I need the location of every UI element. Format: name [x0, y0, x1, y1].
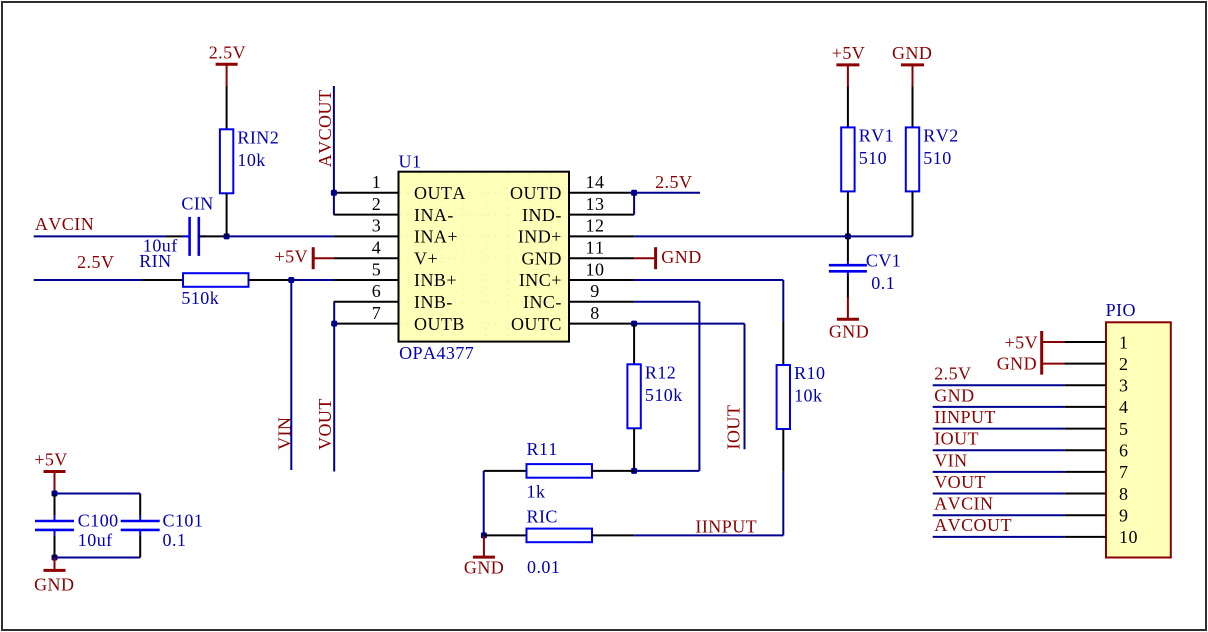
svg-text:+5V: +5V	[34, 450, 68, 470]
svg-text:6: 6	[1119, 441, 1128, 461]
svg-text:8: 8	[590, 303, 599, 323]
svg-text:R11: R11	[527, 439, 558, 459]
svg-text:R12: R12	[645, 363, 676, 383]
svg-text:IND-: IND-	[522, 205, 562, 225]
svg-text:GND: GND	[997, 354, 1037, 374]
svg-text:1k: 1k	[527, 481, 546, 501]
svg-text:VIN: VIN	[934, 450, 967, 470]
svg-text:GND: GND	[892, 43, 932, 63]
svg-text:2.5V: 2.5V	[934, 364, 971, 384]
svg-text:IINPUT: IINPUT	[695, 517, 757, 537]
svg-text:10uf: 10uf	[78, 530, 113, 550]
svg-text:IND+: IND+	[518, 227, 562, 247]
svg-text:RIN: RIN	[139, 251, 171, 271]
svg-text:IOUT: IOUT	[724, 405, 744, 450]
svg-text:0.1: 0.1	[163, 530, 187, 550]
svg-text:13: 13	[586, 194, 605, 214]
svg-text:0.1: 0.1	[871, 273, 895, 293]
svg-text:2.5V: 2.5V	[209, 42, 246, 62]
svg-text:GND: GND	[934, 385, 974, 405]
svg-text:C101: C101	[163, 510, 204, 530]
svg-text:OUTB: OUTB	[414, 314, 465, 334]
svg-text:INB-: INB-	[414, 292, 453, 312]
svg-text:CIN: CIN	[181, 193, 213, 213]
svg-text:5: 5	[372, 259, 381, 279]
svg-text:510k: 510k	[645, 385, 683, 405]
svg-text:9: 9	[590, 281, 599, 301]
svg-text:9: 9	[1119, 506, 1128, 526]
svg-text:OUTC: OUTC	[511, 314, 562, 334]
svg-text:AVCOUT: AVCOUT	[934, 515, 1012, 535]
svg-text:GND: GND	[464, 558, 504, 578]
svg-text:12: 12	[586, 216, 605, 236]
svg-text:510: 510	[859, 148, 887, 168]
svg-text:GND: GND	[521, 248, 561, 268]
svg-text:OUTD: OUTD	[510, 183, 562, 203]
svg-text:VOUT: VOUT	[934, 472, 986, 492]
svg-text:INC-: INC-	[523, 292, 562, 312]
svg-text:4: 4	[1119, 397, 1128, 417]
svg-text:RIN2: RIN2	[237, 128, 279, 148]
svg-text:6: 6	[372, 281, 381, 301]
svg-text:1: 1	[1119, 332, 1128, 352]
svg-text:IINPUT: IINPUT	[934, 407, 996, 427]
svg-text:11: 11	[586, 238, 605, 258]
svg-text:RV2: RV2	[923, 126, 958, 146]
svg-text:INA+: INA+	[414, 227, 458, 247]
svg-text:GND: GND	[829, 322, 869, 342]
svg-text:7: 7	[372, 303, 381, 323]
svg-text:2: 2	[1119, 354, 1128, 374]
svg-text:AVCOUT: AVCOUT	[315, 90, 335, 168]
svg-text:2.5V: 2.5V	[77, 252, 114, 272]
svg-text:+5V: +5V	[1005, 333, 1039, 353]
svg-text:RIC: RIC	[527, 506, 558, 526]
svg-text:510: 510	[923, 148, 951, 168]
svg-text:INB+: INB+	[414, 270, 457, 290]
svg-text:INC+: INC+	[519, 270, 562, 290]
svg-text:RV1: RV1	[859, 126, 894, 146]
svg-text:1: 1	[372, 172, 381, 192]
svg-text:OUTA: OUTA	[414, 183, 466, 203]
svg-text:V+: V+	[414, 248, 438, 268]
svg-text:OPA4377: OPA4377	[399, 343, 474, 363]
svg-text:10k: 10k	[237, 150, 265, 170]
svg-text:2.5V: 2.5V	[655, 172, 692, 192]
svg-text:3: 3	[1119, 376, 1128, 396]
svg-text:PIO: PIO	[1106, 300, 1136, 320]
svg-text:VIN: VIN	[274, 417, 294, 450]
svg-text:IOUT: IOUT	[934, 429, 979, 449]
svg-text:8: 8	[1119, 484, 1128, 504]
svg-text:GND: GND	[661, 247, 701, 267]
svg-text:510k: 510k	[181, 288, 219, 308]
svg-text:+5V: +5V	[274, 247, 308, 267]
svg-text:0.01: 0.01	[527, 557, 560, 577]
svg-text:INA-: INA-	[414, 205, 454, 225]
svg-text:C100: C100	[78, 510, 119, 530]
svg-text:5: 5	[1119, 419, 1128, 439]
svg-text:4: 4	[372, 238, 381, 258]
svg-text:3: 3	[372, 216, 381, 236]
svg-text:+5V: +5V	[832, 43, 866, 63]
svg-text:GND: GND	[34, 574, 74, 594]
svg-text:10: 10	[586, 259, 605, 279]
svg-text:10k: 10k	[794, 386, 822, 406]
svg-text:AVCIN: AVCIN	[934, 494, 993, 514]
svg-text:10: 10	[1119, 527, 1138, 547]
svg-text:CV1: CV1	[866, 251, 901, 271]
svg-text:AVCIN: AVCIN	[35, 214, 94, 234]
svg-text:2: 2	[372, 194, 381, 214]
svg-text:R10: R10	[794, 363, 825, 383]
svg-text:VOUT: VOUT	[315, 398, 335, 450]
svg-text:U1: U1	[399, 152, 422, 172]
svg-text:7: 7	[1119, 462, 1128, 482]
svg-text:14: 14	[586, 172, 605, 192]
